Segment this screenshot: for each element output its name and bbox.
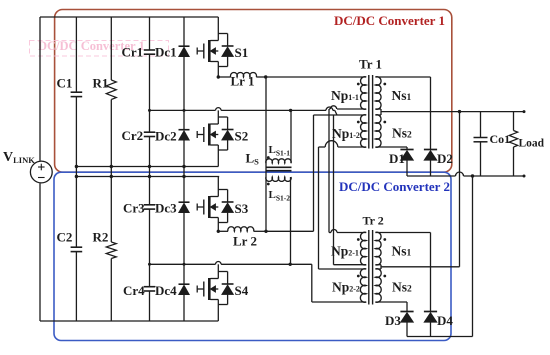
wire v1 M1-to-X2 xyxy=(313,115,315,231)
svg-text:Lr 1: Lr 1 xyxy=(231,74,255,89)
inductor winding L_S1-2 xyxy=(266,177,291,185)
wire v4 to Np2-1 bottom xyxy=(333,115,335,265)
wire X1 to Np1-1 top lead xyxy=(266,76,367,78)
wire Ns1 top lead to D2 riser xyxy=(375,76,430,78)
label Co1 xyxy=(490,132,511,146)
wire bottom rail xyxy=(40,320,218,322)
node X2 junction xyxy=(264,230,267,233)
wire top rail xyxy=(40,16,218,18)
wire Np2-1 top lead xyxy=(329,230,366,233)
wire midpoint rail B xyxy=(76,176,219,178)
svg-text:S3: S3 xyxy=(235,201,249,216)
wire Ns2 bottom lead to D1 xyxy=(375,147,407,150)
label Cr3 xyxy=(123,201,145,216)
wire D2 riser xyxy=(430,77,432,150)
diode Dc4 xyxy=(179,264,190,321)
svg-text:Cr3: Cr3 xyxy=(123,201,145,216)
svg-text:C1: C1 xyxy=(57,76,73,91)
label Ns1 of Tr2 xyxy=(392,244,412,259)
resistor R1 xyxy=(106,17,116,167)
svg-text:D3: D3 xyxy=(385,313,401,328)
label DC/DC Converter 2 xyxy=(339,179,450,194)
wire Ls left vertical (X1 to X2) xyxy=(265,77,267,231)
winding Np2-1 xyxy=(357,232,366,265)
label D2 xyxy=(437,151,453,166)
junction dot output top at riser xyxy=(458,110,461,113)
label D3 xyxy=(385,313,401,328)
inductor Lr1 xyxy=(218,72,265,77)
winding Ns2 of Tr2 xyxy=(375,269,386,302)
label Dc4 xyxy=(155,283,177,298)
svg-text:Cr1: Cr1 xyxy=(122,45,144,60)
ghost artifact pink label xyxy=(30,39,169,56)
capacitor Cr2 xyxy=(144,110,155,166)
winding Np2-2 xyxy=(357,269,366,302)
inductor Lr2 xyxy=(218,227,266,232)
wire riser rect2 to output bottom xyxy=(472,176,474,337)
wire L_S1-2 right vertical to M2 xyxy=(290,177,292,264)
label Dc3 xyxy=(155,201,177,216)
label Cr4 xyxy=(123,283,145,298)
label R2 xyxy=(93,230,109,245)
label Dc2 xyxy=(155,129,177,144)
label L_S1-1 xyxy=(269,144,291,158)
label C1 xyxy=(57,76,73,91)
wire X2 to v1 corner xyxy=(266,230,314,232)
winding Ns2 of Tr1 xyxy=(375,115,386,147)
label Ns2 of Tr2 xyxy=(392,280,412,295)
svg-text:S4: S4 xyxy=(235,283,249,298)
svg-text:R1: R1 xyxy=(93,76,109,91)
label D4 xyxy=(437,313,453,328)
svg-text:Dc4: Dc4 xyxy=(155,283,177,298)
transistor S3 (MOSFET with body diode) xyxy=(197,177,233,232)
label Ns1 of Tr1 xyxy=(392,88,412,103)
wire Tr2 Ns1 top lead to D4 riser xyxy=(375,232,430,234)
core of Ls xyxy=(267,167,292,170)
capacitor Cr4 xyxy=(144,264,155,321)
label V_LINK xyxy=(3,150,35,165)
label Ns2 of Tr1 xyxy=(392,126,412,141)
converter 2 boundary box (blue) xyxy=(54,172,451,340)
wire stub A-B at Cr branch xyxy=(149,167,151,177)
svg-text:S2: S2 xyxy=(235,129,249,144)
wire left rail lower xyxy=(39,183,41,321)
output terminal dots xyxy=(523,110,526,177)
wire v3 Np1-1 bottom to Np2-1 top xyxy=(328,109,330,233)
transistor S2 (MOSFET with body diode) xyxy=(197,110,233,166)
core of Tr2 xyxy=(369,230,373,305)
label Tr 2 xyxy=(363,214,384,228)
wire rectifier 2 anode rail xyxy=(407,336,473,338)
label C2 xyxy=(57,230,73,245)
svg-text:DC/DC Converter 2: DC/DC Converter 2 xyxy=(339,179,450,194)
transistor S4 (MOSFET with body diode) xyxy=(197,264,233,321)
wire rectifier 1 anode rail xyxy=(407,172,524,176)
winding Np1-1 xyxy=(357,77,366,109)
wire S3 source node dot xyxy=(217,230,220,233)
svg-text:Tr 2: Tr 2 xyxy=(363,214,384,228)
label Np2-2 xyxy=(332,280,360,295)
wire M2 to Np2-2 bottom lead xyxy=(312,264,366,302)
label Tr 1 xyxy=(359,57,382,72)
label Cr1 xyxy=(122,45,144,60)
wire node M2 (S3/S4 midpoint bus) xyxy=(150,262,312,265)
diode D3 xyxy=(400,312,413,337)
winding Ns1 of Tr1 xyxy=(375,77,386,109)
capacitor C1 xyxy=(71,17,83,167)
label Load xyxy=(519,138,545,150)
diode D4 xyxy=(424,312,437,337)
label S2 xyxy=(235,129,249,144)
svg-text:Co1: Co1 xyxy=(490,132,511,146)
diode Dc1 xyxy=(179,17,190,110)
wire Tr2 center tap xyxy=(375,265,459,269)
svg-text:DC/DC Converter 1: DC/DC Converter 1 xyxy=(334,13,445,28)
diode Dc2 xyxy=(179,110,190,166)
svg-text:S1: S1 xyxy=(235,45,249,60)
wire left rail upper xyxy=(39,17,41,161)
capacitor C2 xyxy=(71,177,83,322)
svg-text:Dc1: Dc1 xyxy=(155,45,177,60)
svg-text:Cr2: Cr2 xyxy=(122,128,144,143)
wire S1 source node to Lr1 xyxy=(217,75,220,78)
svg-text:Lr 2: Lr 2 xyxy=(233,234,257,249)
svg-text:Dc2: Dc2 xyxy=(155,129,177,144)
diode D2 xyxy=(424,150,437,177)
wire stub A-B at R branch xyxy=(110,167,112,177)
label Dc1 xyxy=(155,45,177,60)
wire Tr2 Ns2 bottom lead to D3 xyxy=(375,302,407,312)
label S4 xyxy=(235,283,249,298)
svg-text:Cr4: Cr4 xyxy=(123,283,145,298)
label Np2-1 xyxy=(331,244,359,259)
svg-text:C2: C2 xyxy=(57,230,73,245)
svg-text:Tr 1: Tr 1 xyxy=(359,57,382,72)
winding Np1-2 xyxy=(357,115,366,147)
wire node M1 (S1/S2 midpoint bus) xyxy=(150,107,338,115)
wire v2 Np1-2 bottom to Np2-2 top xyxy=(318,147,320,269)
junction dots on midpoint rails xyxy=(75,165,186,178)
label S3 xyxy=(235,201,249,216)
label R1 xyxy=(93,76,109,91)
core of Tr1 xyxy=(369,75,373,149)
wire Np1-2 bottom lead xyxy=(319,141,367,147)
wire D4 riser xyxy=(430,233,432,312)
capacitor Co1 xyxy=(474,112,488,176)
transistor S1 (MOSFET with body diode) xyxy=(197,17,233,77)
capacitor Cr3 xyxy=(144,177,155,265)
node X1 junction xyxy=(264,75,267,78)
converter 1 boundary box (red) xyxy=(55,10,452,173)
wire Np2-2 top lead xyxy=(319,268,367,270)
capacitor Cr1 xyxy=(144,17,155,110)
label Lr 1 xyxy=(231,74,255,89)
inductor winding L_S1-1 xyxy=(266,156,291,163)
wire Np2-1 bottom lead xyxy=(334,264,367,266)
wire Tr1 center tap xyxy=(375,109,524,115)
resistor R2 xyxy=(106,177,116,322)
winding Ns1 of Tr2 xyxy=(375,232,386,265)
wire L_S1-1 right vertical to M1 xyxy=(290,110,292,163)
junction dot output bottom xyxy=(471,174,474,177)
wire Np1-2 top lead (y115) xyxy=(314,114,367,116)
label Np1-1 xyxy=(331,88,359,103)
junction dots on M2 xyxy=(148,263,292,266)
wire riser center-tap-2 to output top xyxy=(459,112,461,267)
label Ls xyxy=(246,151,260,167)
wire stub A-B at Dc branch xyxy=(183,167,185,177)
label Cr2 xyxy=(122,128,144,143)
label Np1-2 xyxy=(332,126,360,141)
label D1 xyxy=(389,151,405,166)
diode D1 xyxy=(400,150,413,177)
svg-text:Dc3: Dc3 xyxy=(155,201,177,216)
svg-text:D4: D4 xyxy=(437,313,453,328)
label S1 xyxy=(235,45,249,60)
label Lr 2 xyxy=(233,234,257,249)
diode Dc3 xyxy=(179,177,190,265)
resistor Load xyxy=(509,112,517,176)
svg-text:D2: D2 xyxy=(437,151,453,166)
svg-text:Load: Load xyxy=(519,138,545,150)
svg-text:D1: D1 xyxy=(389,151,405,166)
source V_LINK xyxy=(30,161,52,183)
label L_S1-2 xyxy=(269,189,291,203)
wire stub A-B at C branch xyxy=(75,167,77,177)
wire Np1-1 bottom lead xyxy=(329,106,366,109)
svg-text:R2: R2 xyxy=(93,230,109,245)
junction dots on M1 xyxy=(148,109,292,112)
wire midpoint rail A xyxy=(76,166,218,168)
label DC/DC Converter 1 xyxy=(334,13,445,28)
